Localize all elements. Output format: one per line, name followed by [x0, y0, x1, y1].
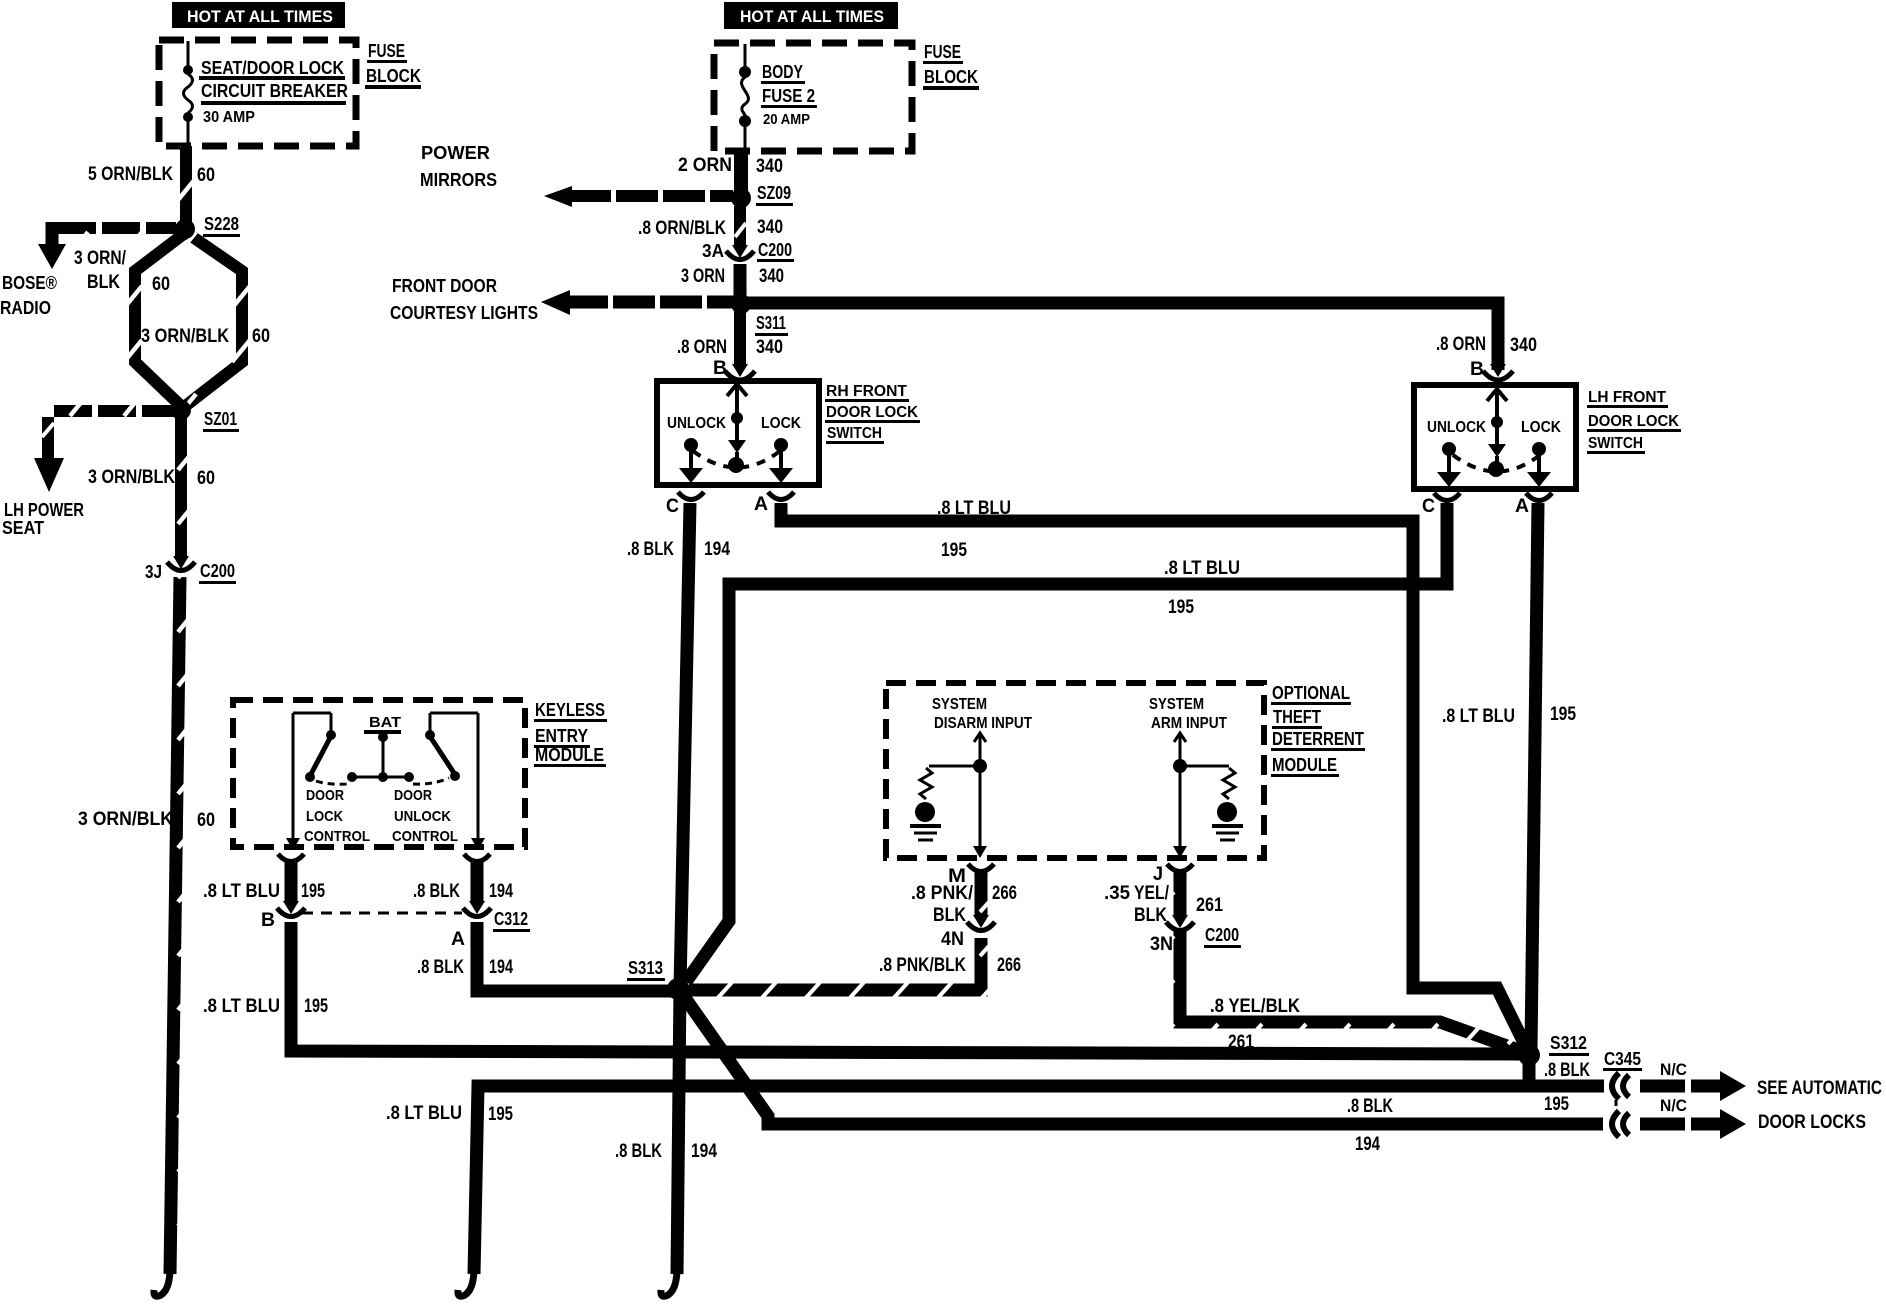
svg-text:.8 ORN: .8 ORN	[1436, 334, 1486, 355]
wire 3N down and right to S312 (.8 YEL/BLK 261)	[1180, 930, 1524, 1052]
svg-text:HOT AT ALL TIMES: HOT AT ALL TIMES	[187, 7, 333, 26]
svg-text:3 ORN/BLK: 3 ORN/BLK	[78, 809, 173, 830]
wire LH C left and down to S313 (.8 LT BLU 195)	[683, 503, 1447, 986]
svg-text:.8 BLK: .8 BLK	[627, 539, 674, 560]
svg-text:CIRCUIT BREAKER: CIRCUIT BREAKER	[201, 81, 348, 101]
svg-text:266: 266	[992, 883, 1017, 904]
wire RH A right and down to S312 (.8 LT BLU 195)	[781, 503, 1529, 1053]
svg-text:S313: S313	[628, 958, 663, 978]
wire end curl (left)	[154, 1268, 170, 1296]
fuse block box (seat/door lock breaker)	[159, 40, 356, 146]
svg-text:BODY: BODY	[762, 62, 803, 82]
svg-text:DOOR LOCK: DOOR LOCK	[826, 404, 918, 421]
svg-text:BLK: BLK	[933, 905, 966, 926]
svg-text:LOCK: LOCK	[761, 415, 801, 432]
svg-text:30 AMP: 30 AMP	[203, 109, 255, 126]
connector C345 upper	[1612, 1073, 1629, 1099]
svg-text:.8 LT BLU: .8 LT BLU	[937, 498, 1011, 519]
svg-text:ARM INPUT: ARM INPUT	[1151, 715, 1227, 732]
wire S311 down to RH switch (.8 ORN 340)	[734, 308, 746, 366]
dashed wire to front door courtesy lights (arrow)	[541, 290, 734, 315]
svg-text:194: 194	[704, 539, 730, 560]
svg-text:340: 340	[757, 217, 783, 238]
label FUSE BLOCK (middle)	[923, 42, 979, 90]
svg-text:261: 261	[1196, 895, 1223, 916]
svg-text:3J: 3J	[145, 562, 162, 582]
svg-text:60: 60	[152, 274, 170, 295]
fuse symbol	[739, 44, 751, 150]
label OPTIONAL THEFT DETERRENT MODULE	[1271, 683, 1365, 777]
wire breaker to S228 (5 ORN/BLK 60)	[180, 146, 192, 229]
svg-text:C200: C200	[758, 240, 792, 260]
splice dot S311 redraw	[731, 294, 751, 314]
splice dot S209 redraw	[731, 188, 751, 208]
theft module pin M connector	[968, 864, 994, 872]
svg-text:ENTRY: ENTRY	[535, 726, 588, 746]
LH front door lock switch box	[1414, 385, 1576, 489]
RH switch pin B connector	[725, 364, 755, 380]
svg-text:THEFT: THEFT	[1273, 707, 1321, 727]
svg-text:BLOCK: BLOCK	[924, 67, 978, 87]
svg-text:BLK: BLK	[1134, 905, 1167, 926]
wire J to 3N (.35 YEL/BLK 261)	[1174, 871, 1187, 917]
C312 connector dashed line	[302, 912, 462, 915]
svg-text:.8 BLK: .8 BLK	[1544, 1060, 1590, 1081]
svg-text:SYSTEM: SYSTEM	[932, 696, 987, 713]
svg-text:B: B	[713, 358, 727, 379]
svg-text:SEAT: SEAT	[2, 518, 44, 538]
connector pin 4N	[967, 915, 995, 931]
svg-text:.8 BLK: .8 BLK	[615, 1141, 662, 1162]
svg-text:C200: C200	[1205, 925, 1239, 945]
svg-text:UNLOCK: UNLOCK	[1427, 419, 1486, 436]
svg-text:FRONT DOOR: FRONT DOOR	[392, 276, 497, 296]
svg-text:SEAT/DOOR LOCK: SEAT/DOOR LOCK	[201, 58, 344, 78]
svg-text:POWER: POWER	[421, 143, 490, 163]
keyless interior: lock switch arm	[286, 713, 348, 850]
svg-text:SEE AUTOMATIC: SEE AUTOMATIC	[1757, 1078, 1882, 1099]
LH switch pin B connector	[1483, 364, 1513, 380]
svg-text:.8 PNK/: .8 PNK/	[911, 883, 974, 904]
svg-text:340: 340	[759, 266, 784, 287]
svg-text:MODULE: MODULE	[1272, 755, 1337, 775]
svg-text:.8 LT BLU: .8 LT BLU	[386, 1103, 462, 1124]
svg-text:FUSE: FUSE	[368, 41, 405, 61]
svg-text:DOOR LOCK: DOOR LOCK	[1588, 413, 1679, 430]
svg-text:.8 YEL/BLK: .8 YEL/BLK	[1210, 996, 1300, 1017]
svg-text:C: C	[666, 496, 679, 517]
svg-text:BOSE®: BOSE®	[2, 273, 57, 293]
svg-text:MODULE: MODULE	[535, 745, 604, 765]
svg-text:340: 340	[756, 156, 783, 177]
svg-text:FUSE: FUSE	[924, 42, 961, 62]
svg-text:SYSTEM: SYSTEM	[1149, 696, 1204, 713]
svg-text:YEL/: YEL/	[1134, 883, 1170, 904]
wire S201 to C200 (3 ORN/BLK 60)	[175, 417, 187, 558]
svg-text:COURTESY LIGHTS: COURTESY LIGHTS	[390, 303, 538, 323]
svg-text:J: J	[1153, 864, 1163, 885]
svg-text:UNLOCK: UNLOCK	[667, 415, 726, 432]
svg-text:CONTROL: CONTROL	[392, 828, 458, 845]
svg-text:.8 ORN/BLK: .8 ORN/BLK	[638, 218, 726, 239]
label LH FRONT DOOR LOCK SWITCH	[1587, 389, 1681, 454]
svg-text:340: 340	[756, 337, 783, 358]
splice S313	[668, 979, 688, 999]
svg-text:.8 LT BLU: .8 LT BLU	[203, 996, 280, 1017]
wire RH C down through S313 to bottom (.8 BLK 194)	[677, 503, 690, 1274]
circuit breaker CB symbol	[183, 41, 193, 146]
svg-text:5 ORN/BLK: 5 ORN/BLK	[88, 164, 173, 185]
wire keyless lock control to C312 (.8 LT BLU 195)	[285, 862, 298, 903]
LH switch pin A connector	[1526, 493, 1552, 501]
svg-text:A: A	[1515, 496, 1529, 517]
svg-text:UNLOCK: UNLOCK	[394, 808, 451, 825]
svg-text:DOOR: DOOR	[394, 787, 432, 804]
svg-text:195: 195	[488, 1104, 513, 1125]
connector C200 pin 3J	[167, 556, 195, 571]
wire C312 A to S313 (.8 BLK 194)	[477, 922, 672, 991]
svg-text:B: B	[1470, 359, 1484, 380]
connector C312 pin A	[463, 901, 491, 917]
svg-text:BAT: BAT	[369, 714, 401, 731]
wire C312 B to S312 (.8 LT BLU 195 long horizontal)	[291, 922, 1522, 1054]
dashed wire to BOSE radio (arrow)	[38, 222, 176, 269]
dashed arrow SEE AUTOMATIC DOOR LOCKS (lower)	[1640, 1109, 1746, 1139]
splice S209	[732, 189, 750, 207]
svg-text:266: 266	[997, 955, 1021, 976]
svg-text:195: 195	[304, 996, 328, 1017]
svg-text:FUSE 2: FUSE 2	[762, 86, 815, 106]
svg-text:195: 195	[1544, 1094, 1569, 1115]
svg-text:C: C	[1422, 496, 1435, 517]
svg-text:.35: .35	[1104, 883, 1130, 904]
label RH FRONT DOOR LOCK SWITCH	[825, 383, 920, 444]
dashed arrow SEE AUTOMATIC DOOR LOCKS (upper)	[1640, 1071, 1746, 1101]
hexagon split wire left branch	[135, 233, 185, 406]
svg-text:SZ01: SZ01	[204, 409, 237, 429]
svg-text:C200: C200	[200, 561, 235, 581]
svg-text:HOT AT ALL TIMES: HOT AT ALL TIMES	[740, 7, 884, 26]
wire S313 diagonal to bottom BLK 194 line	[683, 995, 1603, 1124]
connector C200 pin 3A	[726, 245, 754, 260]
svg-text:DISARM INPUT: DISARM INPUT	[934, 715, 1032, 732]
wire S313 to theft module disarm (.8 PNK/BLK 266)	[686, 938, 981, 990]
svg-text:MIRRORS: MIRRORS	[420, 170, 497, 190]
splice S201	[172, 401, 190, 419]
wire LT BLU 195 bottom horizontal to C345	[474, 1086, 1604, 1274]
svg-text:195: 195	[301, 881, 325, 902]
svg-text:.8 BLK: .8 BLK	[417, 957, 464, 978]
svg-text:2 ORN: 2 ORN	[678, 155, 732, 176]
theft interior: disarm input line	[973, 733, 987, 858]
dashed wire to power mirrors (arrow)	[544, 186, 733, 207]
theft interior: arm resistor to ground	[1186, 766, 1243, 840]
svg-text:195: 195	[941, 540, 967, 561]
connector C200 pin 3N	[1166, 915, 1194, 931]
svg-text:SZ09: SZ09	[757, 183, 791, 203]
svg-text:3 ORN/BLK: 3 ORN/BLK	[88, 467, 175, 488]
wire keyless unlock control to C312 (.8 BLK 194)	[471, 862, 484, 903]
theft interior: arm input line	[1173, 733, 1187, 858]
svg-text:194: 194	[691, 1141, 717, 1162]
label BODY FUSE 2 20 AMP	[761, 62, 817, 128]
connector C312 pin B	[277, 901, 305, 917]
keyless B terminal connector	[278, 854, 304, 862]
RH switch pin A connector	[768, 492, 794, 500]
keyless interior: contact rail	[352, 776, 409, 779]
RH switch pin C connector	[678, 492, 704, 500]
svg-text:CONTROL: CONTROL	[304, 828, 370, 845]
svg-text:A: A	[451, 929, 465, 950]
keyless interior: unlock switch arm	[413, 713, 485, 850]
splice S228	[176, 220, 194, 238]
svg-text:RH FRONT: RH FRONT	[826, 383, 907, 400]
svg-text:4N: 4N	[941, 929, 964, 950]
svg-text:LH FRONT: LH FRONT	[1588, 389, 1666, 406]
svg-text:.8 LT BLU: .8 LT BLU	[1442, 706, 1515, 727]
svg-text:.8 PNK/BLK: .8 PNK/BLK	[879, 955, 966, 976]
svg-text:194: 194	[1355, 1134, 1380, 1155]
svg-text:3N: 3N	[1150, 934, 1173, 955]
svg-text:BLK: BLK	[87, 272, 120, 293]
svg-text:A: A	[754, 494, 768, 515]
LH switch pin C connector	[1434, 493, 1460, 501]
C345 linking dashes	[1615, 1100, 1618, 1118]
long wire C200 down to bottom (3 ORN/BLK 60)	[170, 577, 180, 1274]
connector C345 lower	[1612, 1111, 1629, 1137]
svg-text:SWITCH: SWITCH	[827, 425, 882, 442]
wire end curl (lt blu 195)	[458, 1268, 474, 1296]
svg-text:S312: S312	[1550, 1033, 1587, 1053]
svg-text:DOOR LOCKS: DOOR LOCKS	[1758, 1112, 1866, 1133]
svg-text:DETERRENT: DETERRENT	[1272, 729, 1364, 749]
svg-text:S228: S228	[204, 214, 239, 234]
fuse block box (body fuse 2)	[714, 43, 912, 151]
keyless A terminal connector	[464, 854, 490, 862]
wire LH A down to S312 (.8 LT BLU 195)	[1529, 503, 1538, 1053]
svg-text:60: 60	[252, 326, 270, 347]
wire S311 to LH switch (long horizontal 340)	[747, 303, 1498, 370]
svg-text:C312: C312	[494, 909, 528, 929]
wire S209 to C200 (.8 ORN/BLK 340)	[734, 206, 746, 247]
svg-text:DOOR: DOOR	[306, 787, 344, 804]
svg-text:BLOCK: BLOCK	[366, 66, 421, 86]
svg-text:60: 60	[197, 165, 215, 186]
wire fuse to S209 (2 ORN 340)	[734, 151, 748, 196]
svg-text:195: 195	[1168, 597, 1194, 618]
optional theft deterrent module box	[886, 683, 1264, 858]
svg-text:KEYLESS: KEYLESS	[535, 700, 605, 720]
splice S311	[732, 295, 750, 313]
svg-text:N/C: N/C	[1660, 1096, 1687, 1115]
label SEAT/DOOR LOCK CIRCUIT BREAKER 30 AMP	[199, 58, 348, 126]
svg-text:3A: 3A	[702, 241, 724, 261]
label FUSE BLOCK (left)	[365, 41, 421, 89]
svg-text:.8 LT BLU: .8 LT BLU	[203, 881, 280, 902]
hot at all times label (left)	[172, 2, 345, 28]
wire C200 to S311 (3 ORN 340)	[734, 264, 747, 304]
theft interior: disarm resistor to ground	[910, 766, 974, 840]
splice dot S312 redraw	[1518, 1044, 1540, 1066]
svg-text:195: 195	[1550, 704, 1576, 725]
wire S312 down to C345 (.8 BLK)	[1523, 1060, 1536, 1086]
keyless entry module box	[233, 700, 525, 847]
theft module pin J connector	[1167, 864, 1193, 872]
svg-text:3 ORN/BLK: 3 ORN/BLK	[141, 326, 229, 347]
splice dot S313 redraw	[667, 978, 689, 1000]
hexagon split wire right branch	[184, 233, 242, 407]
svg-text:340: 340	[1510, 335, 1537, 356]
hot at all times label (middle)	[724, 2, 898, 29]
dashed wire to LH power seat (arrow)	[34, 411, 174, 492]
splice dot S228 redraw	[175, 219, 195, 239]
svg-text:.8 ORN: .8 ORN	[677, 337, 727, 358]
svg-text:B: B	[261, 910, 275, 931]
svg-text:.8 BLK: .8 BLK	[413, 881, 460, 902]
keyless interior: BAT feed	[364, 714, 401, 782]
svg-text:.8 BLK: .8 BLK	[1347, 1096, 1393, 1117]
svg-text:194: 194	[489, 957, 513, 978]
wire end curl (blk 194)	[661, 1268, 677, 1296]
svg-text:60: 60	[197, 810, 215, 831]
svg-text:60: 60	[197, 468, 215, 489]
splice dot S201 redraw	[171, 400, 191, 420]
svg-text:RADIO: RADIO	[0, 298, 51, 318]
RH front door lock switch box	[657, 381, 819, 485]
svg-text:S311: S311	[756, 313, 786, 333]
svg-text:261: 261	[1228, 1032, 1254, 1053]
svg-text:194: 194	[489, 881, 513, 902]
svg-text:3 ORN/: 3 ORN/	[74, 248, 127, 269]
svg-text:LOCK: LOCK	[1521, 419, 1561, 436]
svg-text:.8 LT BLU: .8 LT BLU	[1164, 558, 1240, 579]
svg-text:N/C: N/C	[1660, 1060, 1687, 1079]
svg-text:20 AMP: 20 AMP	[763, 111, 810, 128]
svg-text:C345: C345	[1604, 1049, 1641, 1069]
svg-text:OPTIONAL: OPTIONAL	[1272, 683, 1350, 703]
label KEYLESS ENTRY MODULE	[534, 700, 607, 767]
svg-text:LH POWER: LH POWER	[4, 500, 84, 520]
svg-text:3 ORN: 3 ORN	[681, 266, 725, 287]
svg-text:LOCK: LOCK	[306, 808, 343, 825]
svg-text:SWITCH: SWITCH	[1588, 435, 1643, 452]
wire M to 4N (.8 PNK/BLK 266)	[975, 871, 988, 917]
splice S312	[1519, 1045, 1539, 1065]
